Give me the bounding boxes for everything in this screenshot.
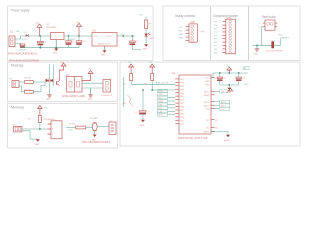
svg-text:GND: GND	[46, 99, 51, 101]
wire net flag BTN to pin	[168, 114, 176, 116]
header SV1 pin 1 circle	[229, 20, 232, 23]
resistor R4	[28, 116, 41, 130]
display pin stub 4	[186, 36, 190, 38]
svg-text:TXD: TXD	[159, 94, 164, 96]
net flag AVCC	[220, 90, 228, 94]
header SV1	[226, 17, 236, 54]
svg-text:GND: GND	[53, 53, 58, 55]
supply +5V relay left	[60, 62, 67, 81]
wire IC to R7	[66, 127, 76, 129]
wire net flag SCL to pin	[168, 97, 176, 99]
U1 left pin 8 stub	[175, 102, 179, 104]
switch pin stub right1	[275, 22, 277, 24]
svg-text:PTR: PTR	[201, 32, 206, 34]
header SV1 pin 4 stub	[222, 31, 226, 33]
wire net flag OW to pin	[168, 103, 176, 105]
junction rail 229.3	[228, 72, 230, 74]
voltage regulator U5	[92, 29, 117, 46]
wire reg2 out rail	[117, 35, 135, 37]
net flag ADC6	[215, 100, 230, 104]
wire net flag SDA to pin	[168, 100, 176, 102]
section frame: Display connector	[163, 6, 211, 61]
net flag RXD	[158, 89, 168, 92]
header SV1 pin 3 stub	[222, 28, 226, 30]
svg-text:+5V: +5V	[43, 108, 47, 110]
svg-text:SCREW+02: SCREW+02	[101, 95, 113, 97]
junction gnd bus at reg1	[55, 47, 57, 49]
svg-text:GND: GND	[179, 37, 184, 39]
junction at C1 tap	[39, 35, 41, 37]
crystal Q2	[90, 118, 98, 135]
wire avcc	[215, 90, 220, 92]
svg-text:Memory: Memory	[11, 106, 24, 110]
svg-text:VCC: VCC	[205, 78, 210, 80]
svg-text:GND: GND	[143, 49, 148, 51]
svg-text:ADC6: ADC6	[204, 101, 210, 104]
ground GND under reg2	[101, 50, 107, 56]
U1 right pin AVCC stub	[211, 90, 215, 92]
svg-text:AGND: AGND	[204, 131, 210, 134]
header SV1 pin 10 stub	[222, 51, 226, 53]
U1 left pin 1 stub	[175, 78, 179, 80]
supply +5V relay right	[82, 69, 93, 81]
resistor R1	[124, 74, 176, 86]
junction rail 219.8	[219, 72, 221, 74]
wire diode to reg1	[28, 35, 50, 37]
junction bus 152	[151, 89, 153, 91]
wire relay to X3 top	[82, 82, 103, 84]
svg-text:LED: LED	[159, 111, 163, 113]
wire reg2 gnd stem	[104, 46, 106, 50]
svg-text:TQFP32-08_AVR 17LB: TQFP32-08_AVR 17LB	[178, 137, 208, 140]
svg-text:GND: GND	[254, 54, 259, 56]
wire opto input verticals	[50, 65, 54, 95]
junction caps gnd	[228, 84, 230, 86]
svg-text:Power Supply: Power Supply	[11, 9, 30, 13]
U1 left pin 12 stub	[175, 116, 179, 118]
header SV1 pin 2 stub	[222, 24, 226, 26]
capacitor C8 reset	[271, 41, 274, 48]
svg-text:GND: GND	[101, 55, 106, 57]
wire VCC to rail	[211, 73, 248, 78]
capacitor C7	[134, 111, 146, 120]
U1 left pin 14 stub	[175, 123, 179, 125]
svg-text:ADC7: ADC7	[221, 105, 227, 108]
net flag OW	[158, 103, 168, 106]
wire X4 pin2 gnd	[22, 131, 30, 139]
U1 left pin 6 stub	[175, 95, 179, 97]
section frame: Microcontroller	[120, 62, 300, 146]
wire X2 to R3	[19, 81, 24, 83]
svg-text:RESET: RESET	[282, 37, 290, 39]
net flag ADC7	[215, 104, 230, 108]
U1 left pin 11 stub	[175, 112, 179, 114]
svg-text:ADC6: ADC6	[221, 101, 227, 104]
U1 right pin XT2 stub	[211, 126, 215, 128]
svg-text:LED1: LED1	[149, 38, 155, 40]
svg-text:SDA: SDA	[179, 33, 184, 36]
header SV1 pin 10 circle	[229, 51, 232, 54]
section frame: Reset button	[249, 6, 301, 61]
transistor T2	[57, 79, 61, 86]
svg-text:2PxxB2DRACMDJ: 2PxxB2DRACMDJ	[82, 141, 111, 144]
svg-text:R7 100: R7 100	[69, 123, 76, 125]
section frame: Memory	[8, 104, 118, 149]
net flag SDA	[158, 100, 168, 103]
svg-text:2PIN+BACKBONES+: 2PIN+BACKBONES+	[8, 53, 39, 56]
ground GND relay out	[88, 88, 94, 101]
connector X2	[10, 79, 20, 88]
capacitor C3 (input)	[20, 44, 25, 48]
header SV1 pin 7 circle	[229, 41, 232, 44]
wire reset vertical	[280, 38, 282, 45]
svg-text:BTN: BTN	[159, 115, 164, 117]
ground GND memory left	[30, 139, 40, 146]
svg-text:GND: GND	[226, 92, 231, 94]
svg-text:Display connector: Display connector	[175, 14, 196, 18]
wire relay to X3 bottom	[82, 87, 103, 89]
ground GND caps	[226, 85, 231, 94]
ground GND under reg1	[53, 49, 58, 55]
capacitor C4	[66, 36, 76, 48]
svg-text:GND: GND	[205, 81, 210, 83]
wire X1 pin1 to diode	[15, 36, 26, 39]
junction bus 143	[142, 89, 144, 91]
svg-text:GND: GND	[205, 84, 210, 86]
U1 left pin 2 stub	[175, 81, 179, 83]
header SV1 pin 8 stub	[222, 45, 226, 47]
svg-text:RXD: RXD	[159, 91, 164, 93]
wire net flag LED to pin	[168, 110, 176, 112]
header SV1 pin 7 stub	[222, 41, 226, 43]
U1 right pin ADC6 stub	[211, 101, 215, 103]
ground GND under diode pair	[46, 95, 52, 101]
svg-text:+12V: +12V	[21, 39, 27, 41]
U1 right pin AGND stub	[211, 131, 215, 133]
wire caps bottom rail	[220, 84, 239, 86]
svg-text:AMS1117-50: AMS1117-50	[98, 42, 110, 45]
net flag AREF right	[243, 67, 249, 71]
U1 right pin ADC7 stub	[211, 104, 215, 106]
svg-text:1 OW: 1 OW	[67, 129, 74, 131]
U1 left pin 7 stub	[175, 99, 179, 101]
U1 left pin 10 stub	[175, 109, 179, 111]
resistor R7	[69, 123, 92, 129]
svg-text:VOUT: VOUT	[106, 36, 112, 38]
display pin stub 5	[186, 39, 190, 41]
svg-text:RLY: RLY	[159, 108, 163, 110]
U1 right pin XT1 stub	[211, 119, 215, 121]
net flag SCL	[158, 96, 168, 99]
net flag RLY	[158, 106, 168, 109]
display pin stub 2	[186, 29, 190, 31]
svg-text:GND: GND	[35, 144, 40, 146]
net flag TXD	[158, 93, 168, 96]
IC U1 box	[179, 75, 211, 134]
svg-text:R3 4K7: R3 4K7	[25, 78, 33, 80]
switch pin stub left1	[263, 22, 265, 24]
voltage regulator IC2 78L09	[46, 24, 64, 39]
supply +5V R2	[149, 62, 155, 74]
U1 left pin 4 stub	[175, 88, 179, 90]
switch pin stub left2	[263, 26, 265, 28]
svg-text:ESP_2/S 3 E: ESP_2/S 3 E	[156, 83, 169, 85]
display pin stub 1	[186, 26, 190, 28]
supply flag +12V	[35, 23, 42, 37]
connector X1	[9, 31, 20, 47]
ground GND under C7	[140, 120, 146, 127]
gnd bus power left	[21, 47, 80, 49]
svg-text:78L09SMD: 78L09SMD	[46, 27, 57, 29]
header SV1 pin 4 circle	[229, 31, 232, 34]
svg-text:AGND: AGND	[224, 139, 230, 142]
LED1	[144, 33, 154, 44]
supply +5V avcc	[228, 88, 232, 91]
net flag PC3	[215, 107, 230, 111]
ground GND memory right	[92, 135, 97, 142]
resistor R3	[25, 78, 46, 84]
wire +5V to R5	[145, 17, 147, 21]
diode pair D2 D3	[46, 79, 54, 83]
svg-text:VIN: VIN	[94, 36, 98, 38]
U1 left pin 3 stub	[175, 85, 179, 87]
supply +5V memory	[38, 106, 48, 116]
junction reset	[272, 45, 274, 47]
connector LCD1	[189, 21, 205, 42]
svg-text:GND: GND	[140, 125, 145, 127]
junction at C5	[78, 35, 80, 37]
wire scl vertical to cap	[142, 90, 144, 111]
supply flag +9V	[76, 22, 82, 36]
capacitor C5	[76, 36, 86, 48]
resistor R6	[25, 86, 46, 94]
U1 left pin 5 stub	[175, 92, 179, 94]
section frame: Power Supply	[8, 6, 154, 61]
svg-text:+5V: +5V	[128, 62, 132, 64]
wire switch to reset line	[252, 27, 280, 46]
switch S1	[265, 20, 275, 30]
transistor Q1 box	[97, 121, 116, 135]
header SV1 pin 6 circle	[229, 37, 232, 40]
section frame: Expansion header	[211, 6, 249, 61]
header SV1 pin 9 stub	[222, 48, 226, 50]
capacitor C1	[38, 36, 48, 48]
wire reg1 gnd stem	[55, 40, 57, 48]
supply +5V mcu	[226, 66, 232, 73]
relay K1	[67, 74, 83, 92]
connector X4	[13, 124, 22, 132]
header SV1 pin 3 circle	[229, 27, 232, 30]
svg-text:32.768K: 32.768K	[90, 118, 98, 120]
display pin stub 3	[186, 33, 190, 35]
svg-text:Relay: Relay	[11, 64, 24, 68]
U1 left pin 9 stub	[175, 106, 179, 108]
net flag BTN	[158, 113, 168, 116]
supply +5V R1	[128, 62, 134, 74]
net flag LED	[158, 110, 168, 113]
wire reg1 out to reg2	[64, 35, 92, 37]
svg-text:1 +VIN/JP1: 1 +VIN/JP1	[16, 49, 28, 51]
wire agnd	[211, 132, 228, 135]
junction rail 238.7	[238, 72, 240, 74]
svg-text:T-1102-B1 RH-HBO: T-1102-B1 RH-HBO	[266, 51, 284, 53]
svg-text:AREF: AREF	[204, 94, 210, 97]
diagonal jumper	[128, 95, 134, 107]
ground AGND	[224, 135, 230, 142]
header SV1 pin 6 stub	[222, 38, 226, 40]
junction memory	[39, 128, 41, 130]
U1 right pin PC3 stub	[211, 108, 215, 110]
header SV1 pin 2 circle	[229, 24, 232, 27]
wire vertical left of opto	[44, 81, 47, 86]
header SV1 pin 8 circle	[229, 44, 232, 47]
resistor R5	[145, 20, 153, 33]
diode D1	[25, 32, 29, 37]
wire net flag RLY to pin	[168, 107, 176, 109]
capacitor C2	[217, 73, 227, 85]
connector X3	[103, 80, 111, 93]
junction rail 123	[122, 35, 124, 37]
wire X4 to IC	[22, 128, 48, 130]
junction gnd bus at C1	[39, 47, 41, 49]
header SV1 pin 9 circle	[229, 48, 232, 51]
svg-text:ADC7: ADC7	[204, 104, 210, 107]
junction rail 132	[132, 35, 134, 37]
ground GND under LED1	[143, 44, 148, 50]
svg-text:GND: GND	[88, 99, 93, 101]
svg-text:Reset button: Reset button	[262, 15, 276, 19]
resistor R2	[145, 74, 176, 91]
section frame: Relay	[8, 62, 118, 102]
junction at C4	[68, 35, 70, 37]
svg-text:AVCC: AVCC	[204, 90, 210, 93]
capacitor C6	[130, 36, 141, 50]
U1 right pin AREF stub	[211, 94, 215, 96]
svg-text:+5V: +5V	[179, 27, 183, 29]
svg-text:RST: RST	[279, 35, 284, 37]
wire X1 pin2 to gnd bus	[15, 44, 21, 48]
IC U2 onewire	[44, 119, 62, 139]
U1 right pin VCC stub	[211, 77, 215, 79]
header SV1 pin 5 stub	[222, 34, 226, 36]
ground GND reset	[254, 45, 260, 56]
wire sda vertical	[123, 77, 125, 107]
header SV1 pin 1 stub	[222, 21, 226, 23]
svg-text:+5V: +5V	[139, 15, 143, 17]
wire X2 to R6	[19, 86, 24, 92]
switch pin stub right2	[275, 26, 277, 28]
svg-text:G5Q+DPDT+00D: G5Q+DPDT+00D	[62, 95, 85, 98]
svg-text:OW: OW	[159, 104, 163, 106]
svg-text:VIN: VIN	[16, 31, 20, 33]
capacitor C3	[236, 73, 246, 85]
header SV1 pin 5 circle	[229, 34, 232, 37]
svg-text:SDA: SDA	[159, 100, 164, 103]
U1 left pin 13 stub	[175, 119, 179, 121]
